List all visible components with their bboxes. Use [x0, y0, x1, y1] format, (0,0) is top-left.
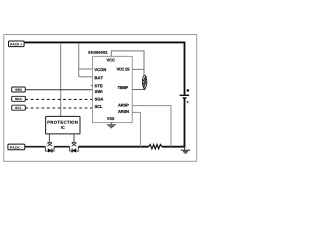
wire: BAT pin: [79, 76, 93, 78]
pin label VSS: [107, 117, 114, 120]
wire: thermistor to TEMP: [132, 88, 144, 90]
IC U1 SH366002 body: [93, 56, 133, 122]
wire: gate drive Q1: [48, 134, 50, 142]
pin label VCON: [94, 68, 106, 71]
wire: PACK+ top bus: [24, 41, 184, 43]
protection IC text: [47, 121, 77, 124]
pin label TEMP: [118, 86, 128, 89]
PACK- label: [10, 146, 22, 148]
SW1 label: [15, 89, 22, 91]
pin label SGA: [95, 98, 104, 101]
wire: SCL dashed: [25, 107, 92, 109]
transistor Q2: [70, 142, 79, 151]
wire: ARSP to right of resistor: [132, 106, 171, 147]
pin label SCL2: [95, 105, 103, 108]
wire: VCC pin loop: [111, 51, 144, 70]
battery BT1: [180, 94, 190, 96]
frame border: [4, 35, 197, 162]
PACK+ label: [10, 43, 22, 45]
transistor Q1: [45, 142, 54, 151]
wire: ARSN to left of resistor: [132, 112, 140, 146]
wire: bus drop to protection IC: [60, 43, 62, 116]
IC U1 label SH366002: [88, 51, 107, 54]
SDA input box: [12, 96, 26, 101]
wire: bottom PACK- net: [25, 146, 70, 148]
SCL input box: [12, 105, 26, 110]
pin label VCC: [106, 59, 114, 62]
SW1 input box: [12, 87, 26, 92]
pin label STE: [95, 84, 103, 87]
pin label ARSP: [118, 104, 129, 107]
SDA label: [15, 98, 21, 100]
wire: gate drive Q2: [73, 134, 75, 142]
pin label SWI: [95, 90, 102, 93]
pin label ARSN: [118, 110, 129, 113]
wire: SW1 to SWI: [25, 89, 92, 91]
wire: VCC1S pin: [132, 68, 144, 70]
pin label BAT: [95, 76, 103, 79]
thermistor RT1: [142, 76, 146, 88]
SCL label: [15, 107, 21, 109]
pin stub STE: [91, 85, 93, 87]
wire: right vertical to battery: [184, 42, 186, 95]
resistor R1 (sense): [149, 145, 163, 149]
wire: bus drop to VCON/BAT: [78, 43, 80, 77]
PACK+ terminal box: [9, 41, 25, 47]
PACK- terminal box: [8, 144, 25, 150]
protection IC U2: [46, 116, 80, 133]
wire: SDA dashed: [25, 98, 92, 100]
ground (bottom right): [184, 147, 186, 150]
wire: VCON pin: [79, 68, 93, 70]
ground (VSS under IC): [110, 123, 112, 125]
wire: battery to bottom corner: [184, 99, 186, 147]
wire: to thermistor: [143, 69, 145, 76]
protection IC text2: [61, 126, 65, 129]
pin label VCC 1S: [117, 68, 130, 71]
